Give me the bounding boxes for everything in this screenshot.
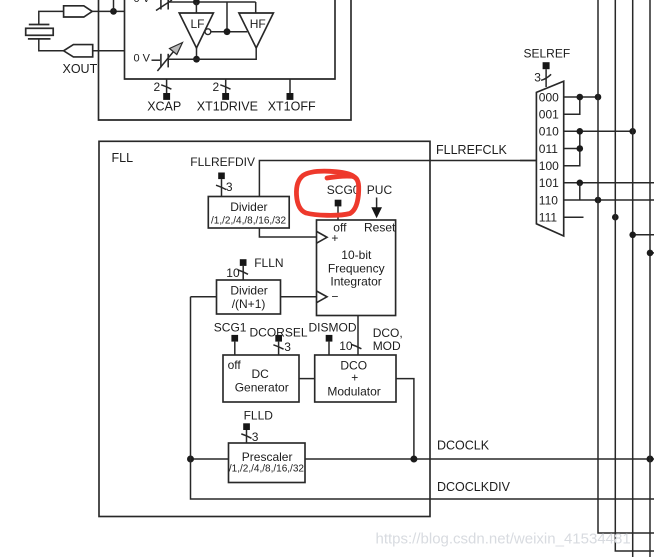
wire FLLREFCLK from mux to divider	[259, 161, 536, 197]
wire mux row 001 L-connector	[564, 97, 580, 114]
amplifier HF	[239, 13, 274, 48]
bus slash 10 on DCO,MOD bus	[351, 344, 361, 348]
pin FLLREFDIV square	[218, 173, 225, 180]
wire mid node up to top rail	[226, 2, 228, 32]
svg-text:off: off	[228, 358, 242, 372]
svg-text:DCO,: DCO,	[373, 326, 403, 340]
svg-text:010: 010	[539, 125, 559, 139]
wire crystal top to XIN buffer	[39, 11, 64, 24]
svg-text:/1,/2,/4,/8,/16,/32: /1,/2,/4,/8,/16,/32	[211, 215, 286, 226]
svg-text:https://blog.csdn.net/weixin_4: https://blog.csdn.net/weixin_41534481	[376, 531, 631, 548]
node on bottom 0V rail	[193, 56, 200, 63]
svg-text:DISMOD: DISMOD	[309, 321, 357, 335]
wire divider to integrator + input	[259, 228, 316, 237]
wire stub up from XIN node	[113, 0, 115, 11]
clock rail 4	[649, 0, 651, 557]
wire XIN buffer to inner box	[92, 10, 124, 12]
bus slash 3 on FLLD	[241, 434, 251, 438]
svg-text:MOD: MOD	[373, 339, 401, 353]
wire 101-110 connector	[579, 183, 581, 200]
svg-text:FLLN: FLLN	[254, 256, 283, 270]
wire top rail to LF input	[195, 2, 197, 13]
svg-text:−: −	[331, 289, 338, 303]
pin SCG1 square	[231, 335, 238, 342]
wire XOUT buffer to inner box	[93, 50, 125, 52]
PUC reset arrow	[376, 198, 378, 209]
svg-text:2: 2	[154, 80, 161, 94]
svg-text:Modulator: Modulator	[327, 385, 380, 399]
svg-text:Frequency: Frequency	[328, 261, 385, 275]
svg-text:XT1DRIVE: XT1DRIVE	[197, 99, 258, 113]
svg-text:001: 001	[539, 108, 559, 122]
svg-text:Divider: Divider	[230, 283, 267, 297]
wire DCO output to DCOCLK line	[396, 379, 414, 459]
wire top rail down to HF input	[255, 2, 257, 13]
svg-text:0 V: 0 V	[134, 53, 151, 65]
wire rail3 branch right	[633, 234, 654, 236]
svg-text:XOUT: XOUT	[63, 62, 98, 76]
variable capacitor top	[156, 0, 172, 11]
XT1 oscillator inner box	[125, 0, 336, 79]
input chevron +	[317, 231, 328, 243]
svg-text:0 V: 0 V	[134, 0, 151, 5]
svg-text:10-bit: 10-bit	[341, 248, 372, 262]
node row 010 at x580	[577, 128, 584, 135]
svg-text:+: +	[331, 231, 338, 245]
svg-text:110: 110	[539, 193, 558, 207]
svg-text:XCAP: XCAP	[147, 99, 181, 113]
wire SCG0 to integrator	[337, 206, 339, 220]
svg-text:Divider: Divider	[230, 200, 267, 214]
wire feedback node up to divider N+1	[190, 297, 192, 459]
amplifier LF	[179, 13, 213, 48]
svg-text:10: 10	[339, 339, 353, 353]
wire mux rows 011-100 connector	[564, 149, 580, 166]
XT1 oscillator outer box	[99, 0, 352, 120]
node row 011 at x580	[577, 145, 584, 152]
svg-text:101: 101	[539, 176, 559, 190]
pin DISMOD square	[326, 335, 333, 342]
svg-text:3: 3	[226, 180, 233, 194]
bus slash 3 on DCORSEL	[273, 345, 283, 349]
pin XCAP	[147, 79, 181, 113]
wire mux row 111 stub	[564, 216, 584, 218]
pin XT1OFF	[268, 79, 316, 113]
svg-text:10: 10	[226, 266, 240, 280]
node on XIN wire	[110, 8, 117, 15]
node row 000 at x580	[577, 94, 584, 101]
node rail3 branch	[629, 232, 636, 239]
red annotation circle around SCG0	[296, 171, 358, 215]
wire DCORSEL to DC generator	[278, 342, 280, 355]
node on LF-HF wire	[224, 28, 231, 35]
svg-text:Prescaler: Prescaler	[242, 450, 293, 464]
DCO modulator box	[315, 355, 396, 402]
pin FLLD square	[243, 423, 250, 430]
crystal XT1	[26, 25, 54, 39]
svg-text:100: 100	[539, 159, 559, 173]
divider /(N+1) box	[217, 280, 281, 314]
pin XT1DRIVE	[197, 79, 258, 113]
svg-text:Integrator: Integrator	[330, 274, 381, 288]
svg-text:3: 3	[284, 340, 291, 354]
clock rail 1	[598, 0, 654, 533]
wire FLLN to divider N+1	[242, 266, 244, 280]
node on top rail above LF	[193, 0, 200, 5]
svg-text:PUC: PUC	[367, 183, 393, 197]
wire mux row 101	[564, 182, 654, 184]
svg-text:/1,/2,/4,/8,/16,/32: /1,/2,/4,/8,/16,/32	[229, 464, 304, 475]
clock rail 3	[632, 0, 634, 557]
svg-text:FLLREFDIV: FLLREFDIV	[190, 155, 255, 169]
prescaler box	[229, 443, 306, 483]
svg-text:DC: DC	[252, 367, 270, 381]
svg-text:SELREF: SELREF	[524, 47, 571, 61]
node row 110 at rail1	[595, 197, 602, 204]
svg-text:DCOCLK: DCOCLK	[437, 439, 490, 453]
input buffer XIN	[64, 6, 93, 17]
svg-text:DCOCLKDIV: DCOCLKDIV	[437, 480, 511, 494]
wire FLLREFDIV pin to divider	[221, 179, 223, 196]
wire DCOCLKDIV	[191, 459, 654, 499]
bus slash 3 on FLLREFDIV	[216, 185, 226, 189]
pin FLLN square	[240, 259, 247, 266]
svg-text:Generator: Generator	[235, 381, 289, 395]
svg-text:FLLD: FLLD	[244, 409, 274, 423]
wire mux row 010	[564, 130, 633, 132]
svg-text:HF: HF	[250, 17, 266, 31]
inversion bubble on LF output	[205, 29, 211, 35]
wire top 0V rail	[168, 1, 256, 3]
svg-text:SCG1: SCG1	[214, 321, 247, 335]
wire integrator output to DCO modulator	[357, 316, 359, 356]
svg-text:FLLREFCLK: FLLREFCLK	[436, 143, 508, 157]
svg-text:LF: LF	[191, 17, 205, 31]
node row 101 at x580	[577, 180, 584, 187]
node DCOCLK junction	[410, 456, 417, 463]
wire mux row 000	[564, 96, 598, 98]
10-bit frequency integrator box U1	[317, 220, 396, 316]
input chevron -	[317, 291, 328, 303]
svg-text:000: 000	[539, 90, 559, 104]
wire LF output down	[196, 48, 198, 59]
svg-text:SCG0: SCG0	[327, 183, 360, 197]
svg-text:Reset: Reset	[364, 221, 396, 235]
pin SELREF square	[543, 62, 550, 69]
svg-text:2: 2	[213, 80, 220, 94]
divider FLLREFDIV box	[208, 197, 289, 229]
output buffer XOUT	[64, 45, 93, 57]
wire mux row 110	[564, 199, 654, 201]
pin SCG0 square	[335, 200, 342, 207]
svg-text:XT1OFF: XT1OFF	[268, 99, 316, 113]
svg-text:FLL: FLL	[112, 151, 134, 165]
svg-text:/(N+1): /(N+1)	[232, 297, 266, 311]
mux input labels	[539, 90, 559, 224]
wire DC generator to DCO	[299, 378, 315, 380]
wire SELREF to mux	[545, 69, 547, 87]
svg-text:+: +	[351, 371, 358, 385]
node rail4 branch	[647, 250, 654, 257]
mux SELREF trapezoid	[536, 81, 563, 236]
svg-text:3: 3	[252, 430, 259, 444]
FLL block box	[99, 141, 430, 516]
node feedback junction	[187, 456, 194, 463]
svg-text:011: 011	[539, 142, 558, 156]
wire prescaler left to feedback node	[191, 458, 229, 460]
variable capacitor bottom	[152, 43, 183, 72]
svg-text:3: 3	[534, 70, 541, 84]
wire DCOCLK	[305, 458, 654, 460]
wire bottom 0V rail	[168, 48, 256, 59]
node row 111 at rail2	[612, 214, 619, 221]
wire 010-011 connector	[579, 131, 581, 148]
wire rail4 branch right	[650, 252, 654, 254]
wire SCG1 to DC generator	[234, 342, 236, 355]
bus slash 3 on SELREF	[541, 74, 551, 80]
node row 010 at rail3	[629, 128, 636, 135]
DC generator box	[223, 355, 299, 402]
wire divider N+1 to integrator - input	[281, 296, 317, 298]
wire LF bubble to HF slope	[211, 31, 248, 33]
wire crystal bottom to XOUT buffer	[39, 39, 64, 51]
wire mux output FLLREFCLK stub	[520, 160, 536, 162]
wire feedback into divider N+1	[191, 296, 217, 298]
svg-text:111: 111	[539, 211, 558, 225]
node row 000 at rail1	[595, 94, 602, 101]
wire DISMOD to DCO modulator	[328, 342, 330, 355]
node DCOCLK right junction	[647, 456, 654, 463]
wire FLLD to prescaler	[246, 430, 248, 443]
clock rail 2	[615, 0, 654, 551]
bus slash 10 on FLLN	[238, 270, 248, 274]
pin DCORSEL square	[275, 335, 282, 342]
